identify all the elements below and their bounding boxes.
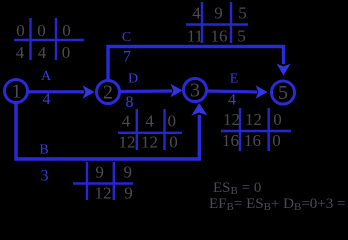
svg-text:7: 7	[123, 49, 131, 66]
svg-text:12: 12	[95, 184, 112, 203]
svg-text:4: 4	[43, 91, 51, 108]
svg-text:9: 9	[124, 163, 133, 182]
svg-text:4: 4	[192, 4, 201, 23]
svg-text:D: D	[128, 72, 138, 87]
svg-text:0: 0	[62, 43, 71, 62]
table ES/EF at node 5 (top-right)	[186, 2, 248, 46]
svg-text:12: 12	[223, 110, 240, 129]
svg-text:5: 5	[237, 27, 246, 46]
svg-text:12: 12	[141, 133, 158, 152]
svg-text:4: 4	[16, 43, 25, 62]
svg-text:3: 3	[190, 80, 200, 102]
svg-text:0: 0	[16, 21, 25, 40]
svg-text:E: E	[230, 72, 239, 87]
arrow C (node 2 up, across, down into node 5)	[108, 47, 291, 81]
arrow A (node 1 to node 2)	[28, 85, 95, 99]
table at activity B (bottom-middle)	[73, 162, 133, 203]
svg-text:9: 9	[95, 163, 104, 182]
svg-text:5: 5	[278, 82, 288, 104]
svg-text:A: A	[41, 69, 52, 84]
node 5	[272, 81, 295, 104]
svg-text:0: 0	[169, 133, 178, 152]
svg-text:8: 8	[126, 94, 134, 111]
svg-text:16: 16	[211, 27, 228, 46]
svg-text:11: 11	[187, 27, 203, 46]
table ES/EF at node 1 (top-left)	[14, 18, 84, 62]
svg-text:0: 0	[273, 110, 282, 129]
svg-text:ESB = 0: ESB = 0	[213, 180, 261, 197]
svg-text:12: 12	[245, 110, 262, 129]
svg-text:C: C	[122, 30, 131, 45]
svg-text:1: 1	[12, 81, 22, 103]
svg-text:2: 2	[103, 82, 113, 104]
svg-text:16: 16	[222, 131, 239, 150]
table ES/EF at node 5 (bottom-right)	[221, 108, 291, 151]
svg-text:9: 9	[124, 184, 133, 203]
node 2	[97, 81, 120, 104]
node 1	[5, 80, 28, 103]
svg-text:16: 16	[244, 131, 261, 150]
svg-text:0: 0	[62, 21, 71, 40]
arrow B (node 1 down, across, up into node 3)	[16, 103, 207, 159]
svg-text:4: 4	[122, 112, 131, 131]
svg-text:0: 0	[272, 131, 281, 150]
svg-text:B: B	[39, 143, 48, 158]
svg-text:3: 3	[41, 168, 49, 185]
svg-text:4: 4	[38, 43, 47, 62]
svg-text:0: 0	[168, 112, 177, 131]
svg-text:5: 5	[238, 4, 247, 23]
arrow E (node 3 to node 5)	[207, 85, 268, 99]
node 3	[184, 79, 207, 102]
svg-text:4: 4	[145, 112, 154, 131]
svg-text:4: 4	[228, 92, 236, 109]
arrow D (node 2 to node 3)	[120, 84, 183, 98]
table ES/EF at node 3 (middle)	[118, 109, 182, 152]
svg-text:9: 9	[214, 4, 223, 23]
svg-text:0: 0	[37, 21, 46, 40]
svg-text:12: 12	[119, 133, 136, 152]
